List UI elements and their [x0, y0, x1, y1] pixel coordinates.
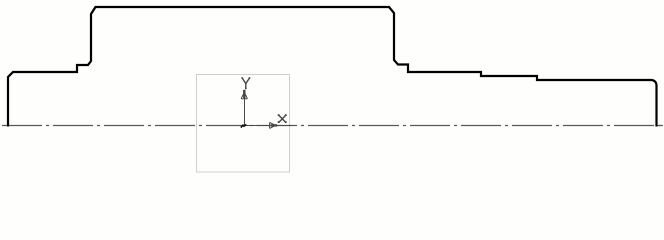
X axis label — [278, 114, 287, 123]
X axis line — [245, 125, 293, 127]
profile outline — [8, 7, 657, 127]
Y axis arrowhead — [241, 90, 247, 99]
X axis arrowhead — [270, 122, 278, 128]
centerline — [2, 125, 663, 127]
Y axis label — [241, 77, 250, 89]
origin marker tick — [241, 124, 247, 127]
centerline end segment — [658, 125, 664, 127]
selection box — [197, 75, 290, 173]
Y axis line — [244, 97, 246, 126]
